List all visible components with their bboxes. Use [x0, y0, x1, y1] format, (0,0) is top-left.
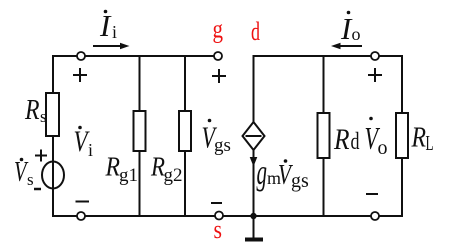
dependent source gmVgs diamond [243, 122, 265, 150]
svg-text:g: g [213, 15, 224, 44]
wire dependent-source branch vertical [253, 55, 255, 217]
svg-text:R: R [411, 122, 427, 154]
svg-text:L: L [426, 131, 434, 155]
wire Rg2 branch vertical [184, 56, 186, 216]
minus sign s node [211, 202, 222, 204]
wire left vertical branch [52, 55, 54, 217]
resistor Rd [318, 113, 330, 158]
plus sign source Vs [35, 150, 47, 162]
wire RL branch vertical [401, 55, 403, 217]
junction dot ground node [250, 213, 256, 219]
wire Rd branch vertical [323, 56, 325, 216]
plus sign output port [368, 68, 382, 82]
svg-text:d: d [251, 17, 260, 46]
wire right top horizontal [253, 55, 404, 57]
ground [253, 216, 255, 238]
svg-text:o: o [352, 24, 361, 44]
terminal circle output bottom [371, 212, 379, 220]
wire bottom horizontal [52, 215, 403, 217]
svg-text:R: R [333, 123, 349, 156]
resistor Rg1 [134, 111, 146, 151]
svg-text:R: R [24, 95, 39, 126]
svg-text:gs: gs [214, 135, 231, 156]
dependent source inner bar [246, 135, 262, 137]
resistor Rs [46, 93, 59, 136]
wire top left horizontal [52, 55, 215, 57]
svg-text:s: s [214, 215, 223, 244]
svg-text:g: g [257, 152, 268, 192]
svg-text:s: s [40, 107, 47, 126]
terminal circle input top [77, 52, 85, 60]
svg-text:i: i [112, 22, 117, 42]
terminal circle output top [371, 52, 379, 60]
svg-text:gs: gs [291, 170, 309, 192]
node g terminal circle [214, 52, 222, 60]
minus sign source Vs [34, 188, 41, 191]
plus sign g node [212, 69, 226, 83]
svg-text:g1: g1 [119, 165, 138, 186]
source Vs circle [42, 162, 64, 189]
minus sign output port [366, 193, 378, 195]
current arrow Ii [93, 45, 124, 47]
wire Rg1 branch vertical [139, 56, 141, 216]
current arrow Io [339, 45, 362, 47]
svg-text:i: i [88, 140, 93, 160]
minus sign input port [76, 201, 90, 203]
resistor Rg2 [179, 111, 191, 151]
dependent source arrowhead down [250, 157, 258, 167]
svg-text:o: o [378, 137, 388, 159]
plus sign input port [73, 68, 87, 82]
terminal circle input bottom [77, 212, 85, 220]
resistor RL [396, 113, 408, 158]
svg-text:g2: g2 [164, 165, 183, 186]
svg-text:s: s [27, 170, 34, 189]
svg-text:d: d [351, 129, 360, 155]
node s terminal circle [215, 212, 223, 220]
